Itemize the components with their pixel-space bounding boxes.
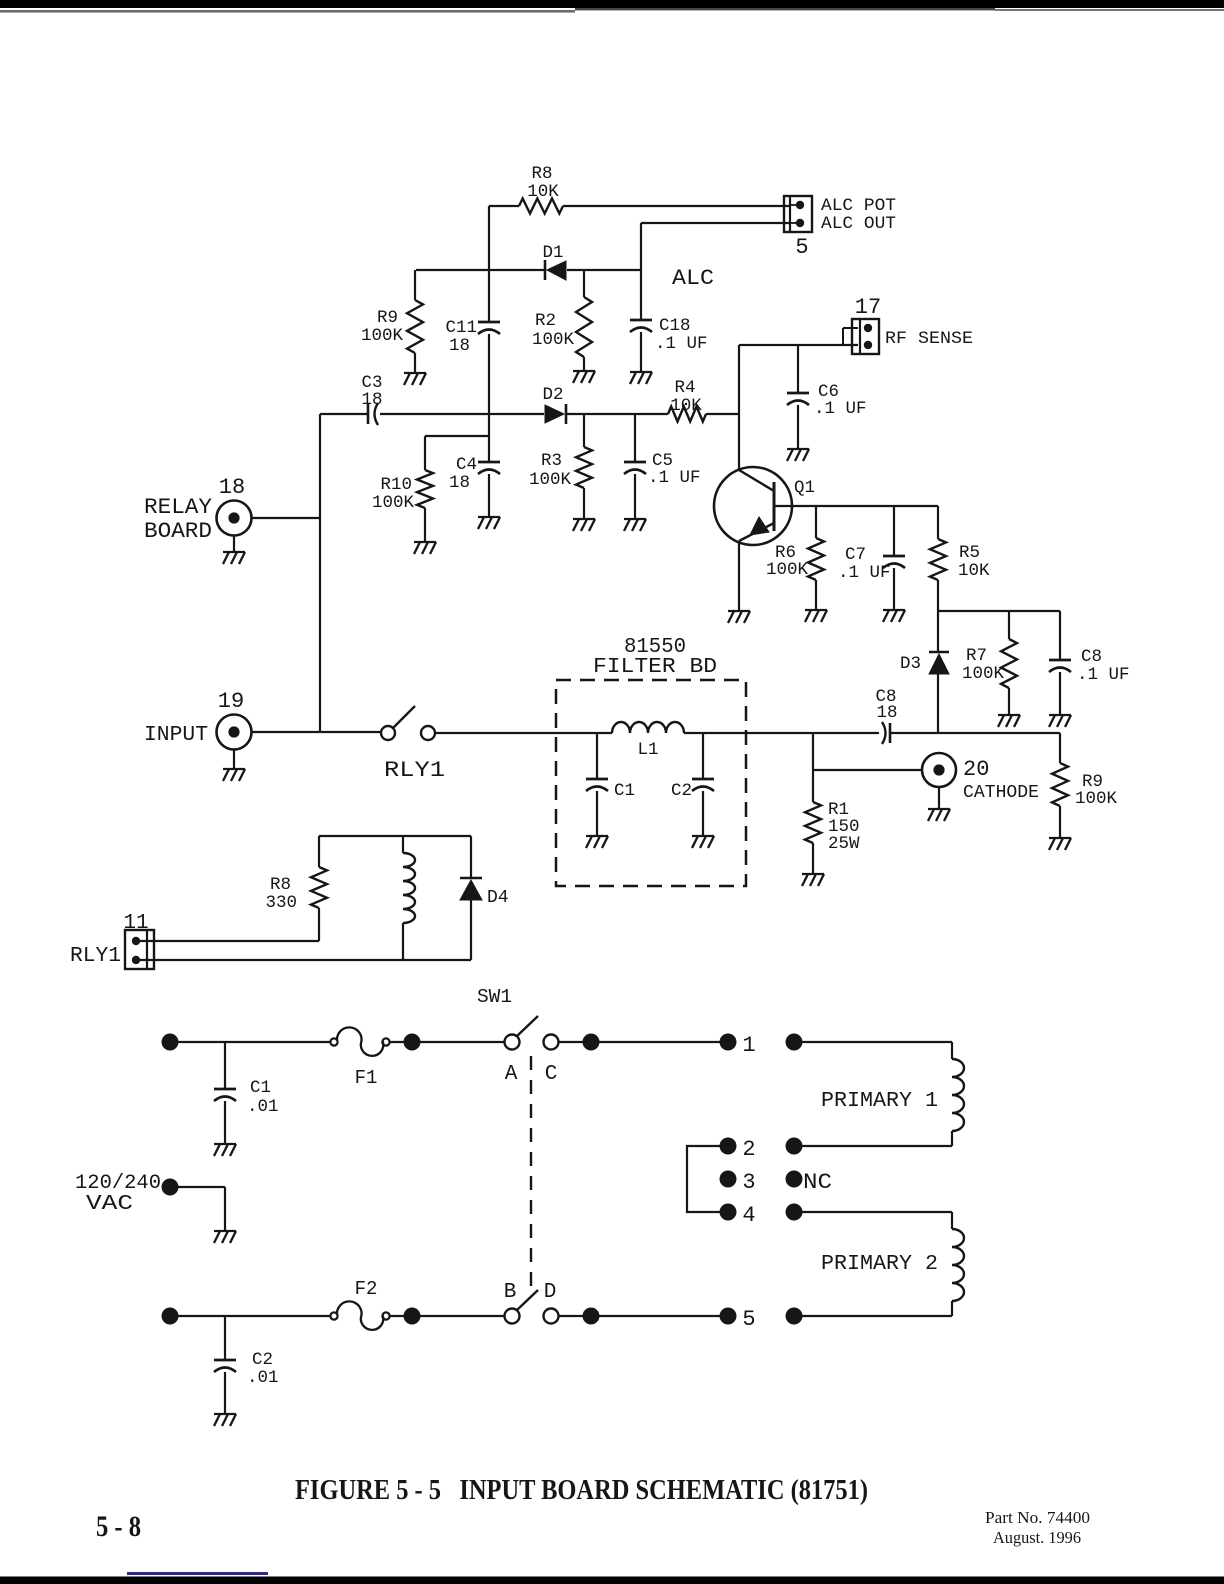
svg-text:100K: 100K: [766, 560, 809, 580]
svg-text:19: 19: [218, 689, 244, 714]
svg-text:INPUT: INPUT: [144, 724, 208, 747]
svg-text:NC: NC: [803, 1170, 832, 1195]
svg-text:.1 UF: .1 UF: [814, 399, 867, 419]
svg-text:ALC POT: ALC POT: [821, 196, 896, 216]
svg-text:5: 5: [742, 1307, 755, 1332]
svg-text:10K: 10K: [670, 396, 702, 416]
svg-text:C2: C2: [252, 1350, 273, 1370]
svg-text:A: A: [505, 1063, 518, 1086]
svg-text:C1: C1: [250, 1078, 271, 1098]
svg-text:.01: .01: [247, 1368, 279, 1388]
svg-text:100K: 100K: [361, 326, 404, 346]
svg-text:C2: C2: [671, 781, 692, 801]
svg-text:Part No. 74400: Part No. 74400: [985, 1508, 1090, 1527]
svg-text:4: 4: [742, 1203, 755, 1228]
svg-text:D3: D3: [900, 654, 921, 674]
svg-text:R2: R2: [535, 311, 556, 331]
svg-text:PRIMARY 2: PRIMARY 2: [821, 1253, 938, 1276]
svg-text:10K: 10K: [958, 561, 990, 581]
svg-text:.1 UF: .1 UF: [1077, 665, 1130, 685]
svg-text:330: 330: [265, 893, 297, 913]
svg-text:R5: R5: [959, 543, 980, 563]
svg-text:R3: R3: [541, 451, 562, 471]
svg-text:20: 20: [963, 757, 989, 782]
svg-text:R7: R7: [966, 646, 987, 666]
svg-text:R8: R8: [270, 875, 291, 895]
svg-text:F1: F1: [355, 1067, 378, 1089]
svg-text:18: 18: [449, 473, 470, 493]
svg-text:C7: C7: [845, 545, 866, 565]
svg-text:R9: R9: [377, 308, 398, 328]
svg-text:18: 18: [219, 475, 245, 500]
svg-text:18: 18: [876, 703, 897, 723]
svg-text:RLY1: RLY1: [384, 758, 445, 783]
svg-text:ALC OUT: ALC OUT: [821, 214, 896, 234]
svg-text:18: 18: [361, 390, 382, 410]
svg-text:D: D: [544, 1281, 557, 1304]
svg-text:100K: 100K: [962, 664, 1005, 684]
svg-text:L1: L1: [637, 740, 658, 760]
svg-text:RF SENSE: RF SENSE: [885, 329, 973, 349]
svg-text:5 - 8: 5 - 8: [96, 1510, 141, 1543]
svg-text:100K: 100K: [1075, 789, 1118, 809]
svg-text:10K: 10K: [527, 182, 559, 202]
svg-text:C1: C1: [614, 781, 635, 801]
svg-text:RELAY: RELAY: [144, 495, 212, 520]
svg-text:FILTER BD: FILTER BD: [593, 656, 717, 679]
svg-text:3: 3: [742, 1170, 755, 1195]
svg-text:D1: D1: [542, 243, 563, 263]
svg-text:RLY1: RLY1: [70, 945, 121, 968]
svg-text:PRIMARY 1: PRIMARY 1: [821, 1090, 938, 1113]
svg-text:CATHODE: CATHODE: [963, 783, 1039, 803]
svg-text:C4: C4: [456, 455, 477, 475]
svg-text:C18: C18: [659, 316, 691, 336]
svg-text:VAC: VAC: [86, 1193, 133, 1216]
svg-text:18: 18: [449, 336, 470, 356]
svg-text:.01: .01: [247, 1097, 279, 1117]
svg-text:100K: 100K: [372, 493, 415, 513]
svg-text:R8: R8: [531, 164, 552, 184]
svg-text:C: C: [545, 1063, 558, 1086]
svg-text:25W: 25W: [828, 834, 860, 854]
svg-text:2: 2: [742, 1137, 755, 1162]
svg-text:120/240: 120/240: [75, 1172, 161, 1195]
svg-text:.1 UF: .1 UF: [838, 563, 891, 583]
svg-text:17: 17: [855, 295, 881, 320]
svg-text:F2: F2: [355, 1278, 378, 1300]
svg-text:D4: D4: [487, 888, 509, 908]
svg-text:100K: 100K: [529, 470, 572, 490]
svg-text:R4: R4: [674, 378, 695, 398]
svg-text:C8: C8: [1081, 647, 1102, 667]
svg-text:11: 11: [123, 912, 148, 935]
svg-text:C11: C11: [445, 318, 477, 338]
svg-text:.1 UF: .1 UF: [655, 334, 708, 354]
svg-text:1: 1: [742, 1033, 755, 1058]
svg-text:SW1: SW1: [477, 986, 512, 1008]
svg-text:August. 1996: August. 1996: [993, 1528, 1081, 1547]
svg-text:5: 5: [795, 235, 808, 260]
svg-text:R10: R10: [380, 475, 412, 495]
svg-text:.1 UF: .1 UF: [648, 468, 701, 488]
svg-text:B: B: [504, 1281, 517, 1304]
svg-text:D2: D2: [542, 385, 563, 405]
svg-text:Q1: Q1: [794, 478, 815, 498]
svg-text:100K: 100K: [532, 330, 575, 350]
svg-text:BOARD: BOARD: [144, 519, 212, 544]
svg-text:FIGURE 5 - 5 INPUT BOARD SCH: FIGURE 5 - 5 INPUT BOARD SCHEMATIC (8175…: [295, 1475, 868, 1506]
svg-text:ALC: ALC: [672, 266, 714, 291]
